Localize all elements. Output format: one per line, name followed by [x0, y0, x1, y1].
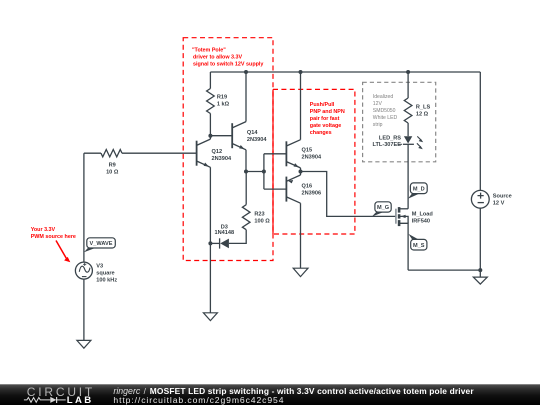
svg-text:"Totem Pole": "Totem Pole" — [192, 47, 226, 53]
footer logo squiggle — [24, 397, 66, 403]
svg-text:Q15: Q15 — [302, 148, 313, 154]
svg-text:Push/Pull: Push/Pull — [310, 102, 335, 108]
flag M_D — [408, 183, 427, 199]
label D3 — [214, 225, 234, 237]
svg-text:V3: V3 — [96, 263, 103, 269]
label R23 — [254, 212, 270, 225]
svg-text:M_Load: M_Load — [412, 211, 434, 217]
wire to Q16 base — [264, 188, 287, 190]
svg-text:10 Ω: 10 Ω — [106, 169, 119, 175]
svg-text:12 V: 12 V — [493, 200, 505, 206]
wire R19 bottom lead to node — [209, 114, 211, 136]
label R19 — [217, 94, 230, 107]
MOSFET M_Load — [396, 207, 406, 226]
svg-text:LTL-307EE: LTL-307EE — [373, 142, 402, 148]
svg-text:LAB: LAB — [67, 395, 94, 405]
svg-text:IRF540: IRF540 — [412, 218, 430, 224]
wire gate net — [301, 172, 396, 217]
wire R9 left lead — [84, 152, 101, 154]
resistor R_LS — [404, 98, 412, 123]
svg-text:driver to allow 3.3V: driver to allow 3.3V — [193, 54, 243, 60]
label R9 — [106, 162, 119, 175]
annotation box edge overlap (solid red) — [272, 89, 274, 234]
wire R_LS top lead — [407, 72, 409, 98]
label Source — [493, 193, 512, 206]
label Q16 — [302, 184, 322, 197]
footer bar — [0, 384, 540, 405]
annotation text Idealized LED strip — [373, 94, 398, 128]
svg-text:Idealized: Idealized — [373, 94, 394, 100]
flag V_WAVE — [84, 238, 115, 252]
label Q12 — [212, 149, 232, 162]
node junction dots — [208, 70, 482, 272]
svg-text:2N3904: 2N3904 — [247, 137, 267, 143]
svg-text:SMD5050: SMD5050 — [373, 108, 396, 114]
svg-text:12V: 12V — [373, 101, 383, 107]
annotation text Totem Pole — [192, 47, 263, 67]
svg-text:strip: strip — [373, 122, 383, 128]
ground (source negative) — [473, 277, 487, 284]
svg-text:PNP and NPN: PNP and NPN — [310, 109, 345, 115]
wire top rail — [210, 71, 480, 73]
ground (V3) — [77, 340, 91, 348]
annotation box Push/Pull (red dashed) — [273, 89, 355, 234]
wire D3 right lead to R23 — [229, 230, 246, 244]
wire Q15 collector to rail — [300, 72, 302, 140]
ground (Q12 emitter) — [203, 313, 217, 321]
svg-text:100 kHz: 100 kHz — [96, 277, 117, 283]
LED LED_RS — [398, 136, 423, 149]
wire V3 bottom to ground — [83, 279, 85, 340]
svg-text:Your 3.3V: Your 3.3V — [31, 227, 56, 233]
svg-text:square: square — [96, 270, 114, 276]
wire Q16 collector to ground — [300, 203, 302, 268]
wire MOSFET body tie — [399, 216, 408, 223]
svg-text:Q16: Q16 — [302, 184, 313, 190]
wire Q12 collector stub — [209, 136, 211, 139]
wire source bottom to ground node — [479, 208, 481, 277]
svg-text:Q14: Q14 — [247, 130, 258, 136]
wire MOSFET source to ground node — [408, 269, 480, 271]
wire D3 left lead — [210, 242, 219, 244]
label LED_RS — [373, 136, 402, 149]
svg-text:Q12: Q12 — [212, 149, 223, 155]
svg-text:PWM source here: PWM source here — [31, 234, 76, 240]
flag M_G — [372, 202, 391, 217]
svg-text:M_G: M_G — [377, 205, 389, 211]
annotation text Push/Pull — [310, 102, 345, 136]
svg-text:changes: changes — [310, 130, 332, 136]
svg-text:1N4148: 1N4148 — [214, 230, 234, 236]
label V3 — [96, 263, 117, 283]
wire R_LS to LED — [407, 123, 409, 136]
label R_LS — [416, 104, 431, 117]
svg-text:Source: Source — [493, 193, 512, 199]
svg-text:signal to switch 12V supply: signal to switch 12V supply — [193, 61, 263, 67]
wire Q15 emitter stub — [300, 168, 302, 172]
wire node to Q14 base — [210, 135, 232, 137]
svg-text:2N3906: 2N3906 — [302, 191, 322, 197]
wire Q12 emitter down to D3 node and mid ground — [209, 167, 211, 312]
annotation text Your 3.3V PWM source here — [31, 227, 76, 240]
svg-text:M_S: M_S — [413, 243, 425, 249]
svg-text:R23: R23 — [254, 212, 264, 218]
wire Q14 emitter to bases node — [246, 171, 264, 173]
svg-text:2N3904: 2N3904 — [212, 156, 232, 162]
resistor R23 — [242, 205, 250, 230]
flag M_S — [408, 234, 427, 250]
wire R23 top lead — [245, 172, 247, 205]
svg-text:gate voltage: gate voltage — [310, 123, 341, 129]
svg-text:R9: R9 — [109, 162, 116, 168]
label M_Load — [412, 211, 434, 224]
wire Q14 collector to rail — [245, 72, 247, 122]
transistor Q14 — [232, 122, 246, 150]
svg-text:12 Ω: 12 Ω — [416, 111, 429, 117]
wire LED to MOSFET drain — [407, 144, 409, 209]
svg-text:1 kΩ: 1 kΩ — [217, 101, 230, 107]
label Q15 — [302, 148, 322, 161]
wire to Q15 base — [264, 153, 287, 155]
transistor Q15 — [286, 140, 300, 168]
wire Q14 emitter down — [245, 150, 247, 172]
label Q14 — [247, 130, 267, 143]
transistor Q16 — [286, 175, 300, 203]
wire R19 top lead — [209, 72, 211, 89]
svg-text:V_WAVE: V_WAVE — [90, 241, 113, 247]
svg-text:R19: R19 — [217, 94, 227, 100]
svg-text:LED_RS: LED_RS — [379, 136, 401, 142]
svg-text:White LED: White LED — [373, 115, 398, 121]
resistor R9 — [101, 150, 122, 157]
svg-text:M_D: M_D — [413, 186, 425, 192]
wire right edge to source — [479, 72, 481, 190]
svg-text:http://circuitlab.com/c2g9m6c4: http://circuitlab.com/c2g9m6c42c954 — [113, 395, 284, 405]
annotation box Totem Pole (red dashed) — [183, 38, 273, 261]
annotation arrow (red) — [56, 241, 70, 263]
svg-text:100 Ω: 100 Ω — [254, 218, 270, 224]
svg-text:2N3904: 2N3904 — [302, 154, 322, 160]
wire MOSFET source stub down — [399, 223, 408, 270]
svg-text:pair for fast: pair for fast — [310, 116, 340, 122]
ground (Q16 collector) — [293, 268, 308, 276]
resistor R19 — [207, 89, 215, 114]
transistor Q12 — [197, 139, 211, 167]
voltage source Source 12V — [471, 190, 489, 208]
wire MOSFET drain stub — [399, 208, 408, 210]
annotation box LED strip (gray dashed) — [363, 82, 436, 162]
wire bases vertical — [263, 154, 265, 189]
wire Q16 emitter stub — [300, 172, 302, 176]
wire left vertical to V3 — [83, 153, 85, 262]
wire R9 right lead to Q12 base — [122, 152, 197, 154]
svg-text:R_LS: R_LS — [416, 104, 431, 110]
diode D3 — [220, 238, 229, 248]
voltage source V3 — [75, 262, 92, 279]
